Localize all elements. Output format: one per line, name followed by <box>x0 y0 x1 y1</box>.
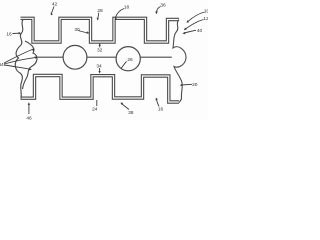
arrowhead 40 <box>182 32 185 34</box>
arrowhead 28 <box>97 18 99 21</box>
svg-text:30: 30 <box>74 27 80 33</box>
arrowhead 44-1 <box>32 49 35 52</box>
label 34 arrow <box>99 68 101 73</box>
label 18 arrow <box>115 9 124 19</box>
label 30 arrow <box>78 31 88 34</box>
label 38 arrow <box>121 103 129 109</box>
arrowhead 38 <box>120 103 123 106</box>
arrowhead 32 <box>99 43 101 46</box>
top corrugated sheet inner white <box>21 18 180 42</box>
svg-text:26: 26 <box>127 57 133 63</box>
label 28 arrow <box>97 13 100 19</box>
svg-text:44: 44 <box>0 62 4 68</box>
svg-text:10: 10 <box>204 9 208 15</box>
svg-text:46: 46 <box>26 115 32 120</box>
label 12 arrow <box>185 20 203 30</box>
label 10 arrow <box>188 12 205 22</box>
svg-text:16: 16 <box>6 32 12 38</box>
arrowhead 12 <box>184 28 187 31</box>
left break wavy left edge <box>15 20 23 99</box>
middle sheet line segment 2 <box>87 56 116 58</box>
svg-text:16: 16 <box>158 107 164 113</box>
top corrugated sheet outer <box>21 18 180 42</box>
label 44 arrow 2 <box>4 57 36 64</box>
label 20 arrow <box>181 83 192 86</box>
arrowhead 34 <box>98 71 100 74</box>
middle sheet line segment 1 <box>36 56 63 58</box>
svg-text:18: 18 <box>124 5 130 11</box>
arrowhead 36 <box>155 11 158 14</box>
tube circle C1 <box>63 45 87 69</box>
svg-text:42: 42 <box>52 2 58 8</box>
label 42 arrow <box>51 7 54 15</box>
svg-text:24: 24 <box>92 107 98 113</box>
label 16 arrow <box>13 32 20 34</box>
label 26 leader <box>121 62 127 69</box>
label 32 arrow <box>99 44 101 48</box>
svg-text:34: 34 <box>96 64 102 70</box>
svg-text:36: 36 <box>160 3 166 9</box>
arrowhead 30 <box>86 31 89 33</box>
arrowhead 20 <box>180 84 183 87</box>
label 46 arrow <box>28 104 30 114</box>
arrowhead 18 <box>115 17 117 20</box>
middle sheet line segment 3 <box>141 56 172 58</box>
label 24 leader <box>96 100 98 106</box>
arrowhead 46 <box>28 102 30 105</box>
bottom corrugated sheet inner white <box>21 76 180 103</box>
left break wavy right edge <box>23 41 37 89</box>
label 40 arrow <box>184 30 196 33</box>
arrowhead 44-3 <box>29 68 32 71</box>
tube circle C2 <box>116 47 140 71</box>
label 44 arrow 1 <box>4 49 34 63</box>
arrowhead 16b <box>156 98 158 101</box>
arrowhead 42 <box>51 12 53 15</box>
label 16b arrow <box>156 99 159 107</box>
label 36 arrow <box>157 7 161 13</box>
arrowhead 10 <box>187 20 190 23</box>
svg-text:28: 28 <box>97 8 103 14</box>
arrowhead 16 <box>19 32 22 35</box>
arrowhead 44-2 <box>35 56 38 59</box>
right break wavy line with bulge <box>173 20 186 103</box>
svg-text:20: 20 <box>192 82 198 88</box>
svg-text:40: 40 <box>197 28 203 34</box>
label 44 arrow 3 <box>4 65 31 69</box>
svg-text:32: 32 <box>97 48 103 54</box>
bottom corrugated sheet outer <box>21 76 180 103</box>
svg-text:12: 12 <box>203 16 208 22</box>
svg-text:38: 38 <box>128 110 134 116</box>
